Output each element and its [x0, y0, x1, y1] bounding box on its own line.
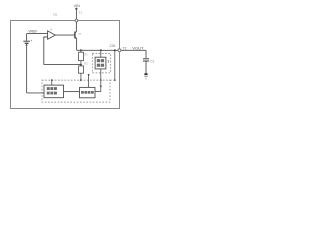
wire into protection box: [27, 92, 44, 94]
reference circuit box (基准电路): [80, 87, 96, 97]
svg-text:VIN: VIN: [74, 4, 80, 8]
battery VREF long plate: [23, 40, 30, 42]
wire R1 to R2: [80, 61, 82, 66]
wire stub to internal load: [100, 50, 102, 57]
pin circle VOUT on box edge: [118, 49, 121, 52]
transistor Q1 base bar: [74, 32, 76, 39]
wire down to reference source: [26, 34, 28, 41]
internal load text blobs (内部/负载): [97, 59, 104, 67]
junction dot below battery: [26, 44, 28, 46]
node dot left box stub: [51, 79, 53, 81]
wire VREF to op-amp noninverting input: [27, 33, 48, 35]
capacitor C1 top plate: [143, 58, 149, 60]
wire reference box top stub: [88, 75, 90, 88]
op-amp A1 triangle: [48, 31, 56, 39]
wire VIN terminal to box edge: [75, 10, 77, 20]
wire op-amp inverting input: [44, 37, 48, 65]
dashed line extension to right stub: [110, 79, 115, 81]
wire internal load down to reference wire: [100, 69, 102, 92]
svg-text:+: +: [30, 39, 32, 43]
svg-text:VOUT: VOUT: [132, 45, 144, 50]
VIN terminal dot: [75, 8, 77, 10]
svg-text:VREF: VREF: [28, 30, 37, 34]
wire stub into protection box: [51, 80, 53, 85]
transistor Q1 emitter wire: [75, 37, 77, 51]
wire VOUT external: [121, 49, 146, 51]
node load stub top dot: [100, 49, 102, 51]
wire output rail: [77, 49, 119, 51]
wire down to capacitor C1: [145, 50, 147, 58]
dashed group box bottom section: [42, 80, 110, 102]
svg-text:A: A: [50, 28, 52, 32]
battery VREF short plate: [25, 42, 29, 44]
wire stub to R1: [80, 50, 82, 52]
wire R2 down: [80, 73, 82, 80]
resistor R1: [79, 52, 84, 60]
node R2 bottom dot: [80, 79, 82, 81]
transistor Q1 emitter arrow: [75, 36, 77, 39]
svg-text:U1: U1: [53, 12, 57, 16]
node right stub top dot: [114, 49, 116, 51]
wire battery down: [26, 44, 28, 93]
protection box text blobs row1: [47, 87, 57, 94]
protection circuit box (过热保护电路): [44, 85, 64, 98]
svg-text:T1: T1: [78, 11, 82, 15]
svg-text:R2: R2: [84, 62, 88, 65]
wire op-amp output to base: [55, 34, 75, 36]
pin circle VIN on box edge: [75, 19, 78, 22]
wire capacitor to ground: [145, 62, 147, 74]
resistor R2: [79, 66, 84, 73]
node R1 top dot: [80, 49, 82, 51]
node feedback tap dot: [80, 64, 82, 66]
transistor Q1 collector wire: [75, 22, 77, 33]
wire reference box to load wire: [95, 91, 101, 93]
op-amp IC outer boundary box: [11, 21, 120, 109]
feedback wire to divider tap: [44, 64, 81, 66]
svg-text:C1: C1: [150, 59, 154, 63]
dashed box internal load enclosure: [92, 54, 110, 73]
wire VOUT right stub down: [114, 50, 116, 80]
svg-text:R1: R1: [84, 53, 88, 56]
node right stub bottom dot: [114, 79, 116, 81]
wire between bottom boxes: [64, 91, 80, 93]
ground symbol: [144, 73, 147, 75]
arrow down on load wire: [100, 86, 102, 89]
node dot stub top: [88, 74, 90, 76]
capacitor C1 bottom plate: [143, 60, 149, 62]
node dot on dashed line: [100, 79, 102, 81]
internal load block: [95, 57, 106, 69]
svg-text:VT: VT: [78, 32, 82, 36]
svg-text:T2: T2: [123, 46, 127, 50]
reference box text blobs: [81, 91, 94, 94]
svg-text:C01: C01: [110, 44, 116, 48]
small mark right of load box: [108, 60, 109, 63]
